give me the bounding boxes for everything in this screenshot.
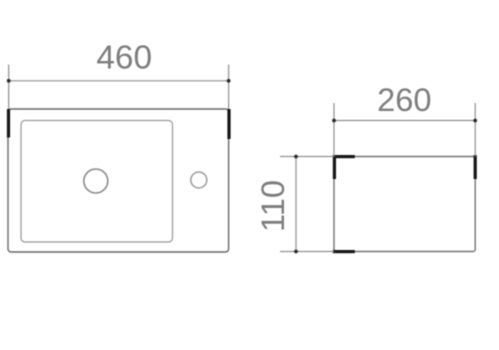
- dim 110: top end dot: [294, 155, 298, 159]
- side view: black mark bottom-left horizontal: [333, 250, 355, 253]
- side view: body rectangle: [334, 157, 475, 252]
- top view: faucet hole circle: [191, 172, 207, 188]
- top view: black mounting mark left corner: [7, 109, 10, 138]
- dim 260: left extension line: [333, 103, 335, 157]
- dim 260: right end dot: [473, 119, 477, 123]
- top view: drain hole circle: [84, 169, 108, 193]
- top view: inner basin rectangle: [21, 121, 173, 243]
- dim 110: top extension line: [280, 156, 334, 158]
- dim 110: dimension line: [295, 157, 297, 252]
- dim 460: right extension line: [228, 65, 230, 110]
- side view: black L mark top-left horizontal: [333, 155, 355, 158]
- side view: black L mark top-left vertical: [333, 155, 336, 179]
- svg-text:110: 110: [254, 180, 291, 232]
- top view: black mounting mark right corner: [227, 109, 230, 139]
- dim 110: bottom end dot: [294, 250, 298, 254]
- top view: outer rim rectangle: [8, 109, 229, 252]
- svg-text:460: 460: [96, 40, 152, 77]
- dim 460: dimension line: [9, 80, 229, 82]
- dim 460: right end dot: [227, 79, 231, 83]
- dim 460: left end dot: [7, 79, 11, 83]
- dim 260: dimension line: [334, 120, 475, 122]
- dim 260: right extension line: [474, 103, 476, 157]
- dim 260: left end dot: [332, 119, 336, 123]
- side view: black mark top-right vertical: [474, 155, 477, 179]
- dim 460: left extension line: [8, 65, 10, 110]
- svg-text:260: 260: [377, 81, 431, 118]
- dim 110: bottom extension line: [280, 251, 334, 253]
